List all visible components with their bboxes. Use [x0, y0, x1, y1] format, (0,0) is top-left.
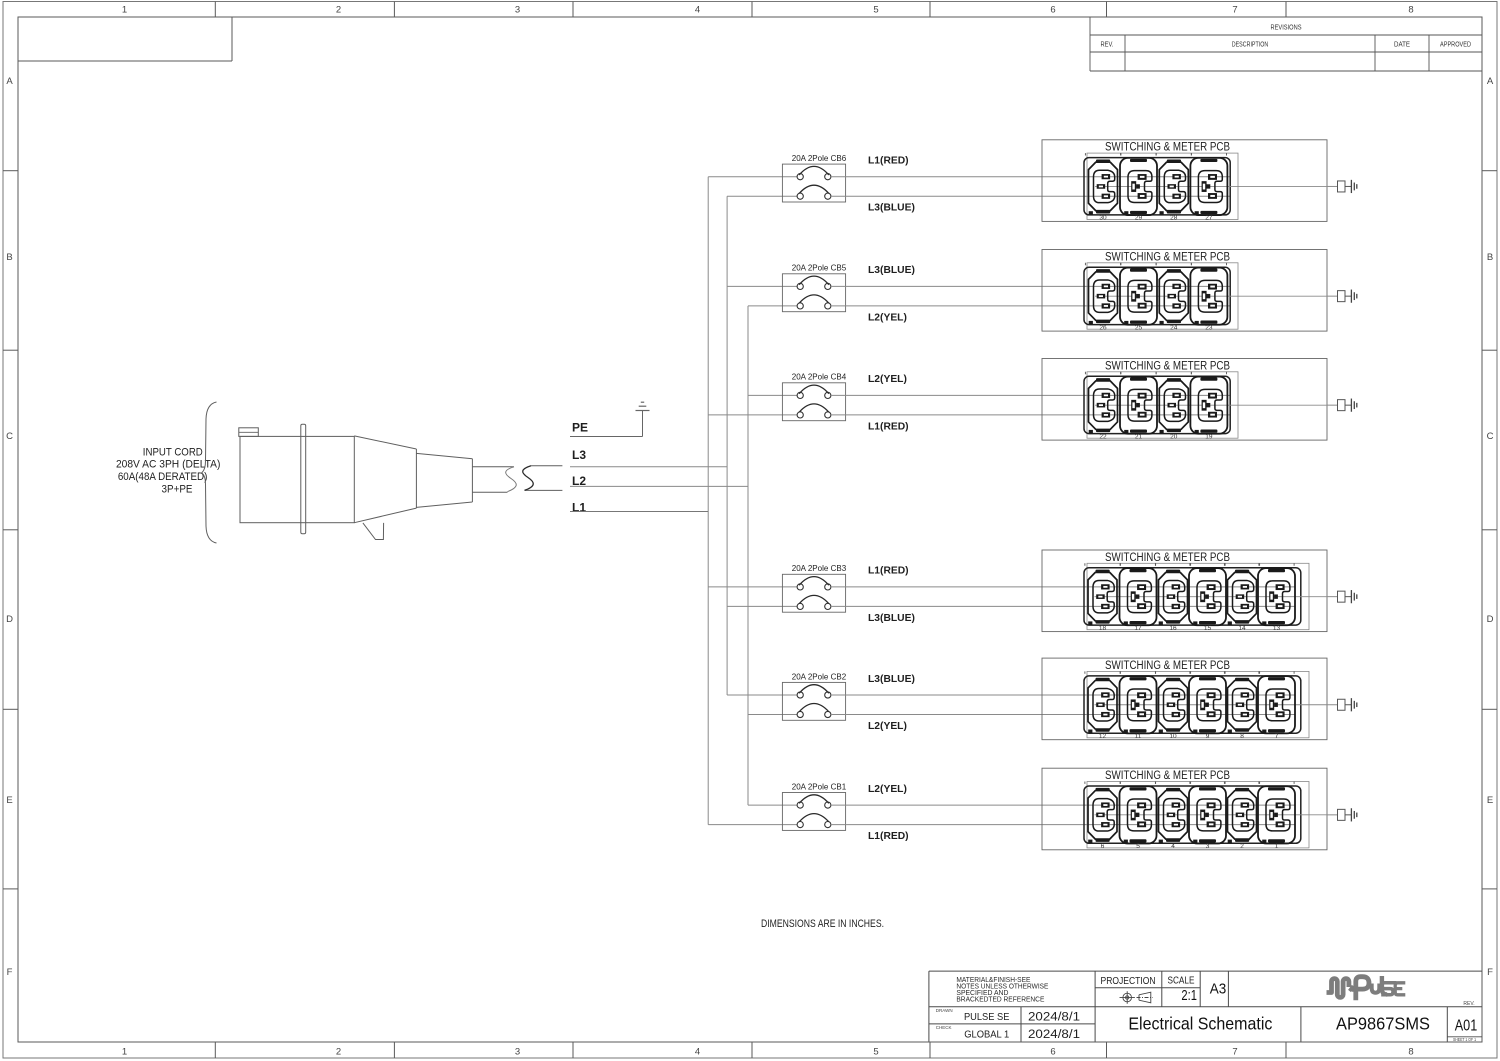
svg-text:4: 4: [695, 1047, 700, 1058]
svg-text:CHECK: CHECK: [936, 1025, 952, 1030]
svg-text:8: 8: [1408, 5, 1413, 16]
svg-text:PULSE SE: PULSE SE: [964, 1011, 1010, 1023]
svg-text:APPROVED: APPROVED: [1440, 42, 1471, 49]
svg-text:L3(BLUE): L3(BLUE): [868, 203, 915, 214]
svg-text:6: 6: [1050, 1047, 1055, 1058]
svg-text:7: 7: [1232, 1047, 1237, 1058]
svg-text:5: 5: [1136, 843, 1140, 850]
svg-text:20A 2Pole CB1: 20A 2Pole CB1: [792, 781, 847, 791]
svg-text:DATE: DATE: [1394, 42, 1410, 49]
svg-text:F: F: [1487, 967, 1493, 978]
svg-text:B: B: [6, 252, 12, 263]
svg-text:AP9867SMS: AP9867SMS: [1336, 1014, 1430, 1034]
svg-text:8: 8: [1408, 1047, 1413, 1058]
svg-text:SCALE: SCALE: [1168, 975, 1195, 986]
svg-text:13: 13: [1273, 625, 1281, 632]
svg-text:DRAWN: DRAWN: [936, 1008, 953, 1013]
svg-text:C: C: [1487, 431, 1494, 442]
svg-text:11: 11: [1135, 733, 1142, 740]
svg-text:20A 2Pole CB3: 20A 2Pole CB3: [792, 563, 847, 573]
svg-text:29: 29: [1135, 215, 1143, 222]
svg-text:L3(BLUE): L3(BLUE): [868, 265, 915, 276]
svg-text:SHEET 1 OF 1: SHEET 1 OF 1: [1453, 1037, 1476, 1042]
svg-text:2: 2: [336, 5, 341, 16]
svg-text:PROJECTION: PROJECTION: [1101, 976, 1156, 987]
svg-text:L2(YEL): L2(YEL): [868, 721, 907, 732]
svg-text:B: B: [1487, 252, 1493, 263]
svg-text:9: 9: [1206, 733, 1210, 740]
svg-text:21: 21: [1135, 433, 1143, 440]
svg-text:A: A: [1487, 76, 1494, 87]
svg-text:6: 6: [1101, 843, 1105, 850]
svg-text:10: 10: [1169, 733, 1177, 740]
svg-text:BRACKEDTED REFERENCE: BRACKEDTED REFERENCE: [956, 995, 1044, 1004]
svg-text:L3(BLUE): L3(BLUE): [868, 613, 915, 624]
svg-text:5: 5: [873, 1047, 878, 1058]
svg-text:2024/8/1: 2024/8/1: [1028, 1029, 1080, 1041]
svg-text:SWITCHING & METER PCB: SWITCHING & METER PCB: [1105, 360, 1230, 372]
svg-text:3: 3: [1206, 843, 1210, 850]
svg-text:DIMENSIONS ARE IN INCHES.: DIMENSIONS ARE IN INCHES.: [761, 918, 884, 930]
svg-text:6: 6: [1050, 5, 1055, 16]
svg-text:D: D: [6, 614, 13, 625]
svg-text:20A 2Pole CB4: 20A 2Pole CB4: [792, 372, 847, 382]
svg-text:INPUT CORD: INPUT CORD: [143, 446, 203, 458]
svg-text:SWITCHING & METER PCB: SWITCHING & METER PCB: [1105, 552, 1230, 564]
svg-text:PE: PE: [572, 421, 588, 435]
svg-text:DESCRIPTION: DESCRIPTION: [1232, 42, 1269, 49]
svg-text:19: 19: [1205, 433, 1213, 440]
svg-text:E: E: [1487, 795, 1493, 806]
svg-text:L3(BLUE): L3(BLUE): [868, 674, 915, 685]
svg-text:L1(RED): L1(RED): [868, 566, 909, 577]
svg-text:REV.: REV.: [1463, 1001, 1474, 1007]
svg-text:24: 24: [1170, 324, 1178, 331]
svg-text:L1: L1: [572, 500, 586, 514]
svg-text:27: 27: [1205, 215, 1213, 222]
svg-text:L2(YEL): L2(YEL): [868, 784, 907, 795]
svg-text:A3: A3: [1210, 980, 1227, 997]
svg-text:1: 1: [122, 5, 127, 16]
svg-text:17: 17: [1134, 625, 1142, 632]
svg-text:2:1: 2:1: [1181, 987, 1197, 1004]
svg-text:26: 26: [1099, 324, 1107, 331]
svg-text:23: 23: [1205, 324, 1213, 331]
svg-text:2024/8/1: 2024/8/1: [1028, 1012, 1080, 1024]
svg-text:REVISIONS: REVISIONS: [1271, 25, 1302, 32]
svg-text:1: 1: [122, 1047, 127, 1058]
svg-text:7: 7: [1232, 5, 1237, 16]
svg-text:25: 25: [1135, 324, 1143, 331]
svg-text:L1(RED): L1(RED): [868, 831, 909, 842]
svg-text:C: C: [6, 431, 13, 442]
svg-text:SWITCHING & METER PCB: SWITCHING & METER PCB: [1105, 142, 1230, 154]
svg-text:20A 2Pole CB6: 20A 2Pole CB6: [792, 153, 847, 163]
svg-text:SWITCHING & METER PCB: SWITCHING & METER PCB: [1105, 251, 1230, 263]
svg-text:22: 22: [1099, 433, 1107, 440]
svg-text:2: 2: [1240, 843, 1244, 850]
svg-text:15: 15: [1204, 625, 1212, 632]
svg-text:SWITCHING & METER PCB: SWITCHING & METER PCB: [1105, 660, 1230, 672]
svg-text:A: A: [6, 76, 13, 87]
svg-text:60A(48A DERATED): 60A(48A DERATED): [118, 471, 208, 483]
svg-text:20A 2Pole CB2: 20A 2Pole CB2: [792, 671, 847, 681]
svg-text:L3: L3: [572, 448, 586, 462]
svg-text:20: 20: [1170, 433, 1178, 440]
svg-text:E: E: [6, 795, 12, 806]
svg-text:4: 4: [695, 5, 700, 16]
svg-text:3P+PE: 3P+PE: [162, 484, 193, 496]
svg-text:Electrical Schematic: Electrical Schematic: [1128, 1014, 1272, 1034]
svg-text:30: 30: [1099, 215, 1107, 222]
svg-text:2: 2: [336, 1047, 341, 1058]
svg-text:F: F: [7, 967, 13, 978]
svg-text:A01: A01: [1455, 1018, 1478, 1035]
svg-text:3: 3: [515, 1047, 520, 1058]
svg-text:L2(YEL): L2(YEL): [868, 374, 907, 385]
svg-text:L1(RED): L1(RED): [868, 156, 909, 167]
svg-text:L1(RED): L1(RED): [868, 421, 909, 432]
svg-text:SWITCHING & METER PCB: SWITCHING & METER PCB: [1105, 770, 1230, 782]
svg-text:12: 12: [1099, 733, 1107, 740]
svg-text:7: 7: [1275, 733, 1279, 740]
svg-text:4: 4: [1171, 843, 1175, 850]
svg-text:L2(YEL): L2(YEL): [868, 312, 907, 323]
svg-text:8: 8: [1240, 733, 1244, 740]
svg-text:16: 16: [1169, 625, 1177, 632]
svg-text:18: 18: [1099, 625, 1107, 632]
svg-text:14: 14: [1238, 625, 1246, 632]
svg-text:20A 2Pole CB5: 20A 2Pole CB5: [792, 263, 847, 273]
svg-text:D: D: [1487, 614, 1494, 625]
svg-text:5: 5: [873, 5, 878, 16]
svg-text:GLOBAL 1: GLOBAL 1: [964, 1029, 1009, 1041]
svg-text:1: 1: [1275, 843, 1279, 850]
svg-text:28: 28: [1170, 215, 1178, 222]
svg-text:3: 3: [515, 5, 520, 16]
svg-text:REV.: REV.: [1101, 42, 1114, 49]
